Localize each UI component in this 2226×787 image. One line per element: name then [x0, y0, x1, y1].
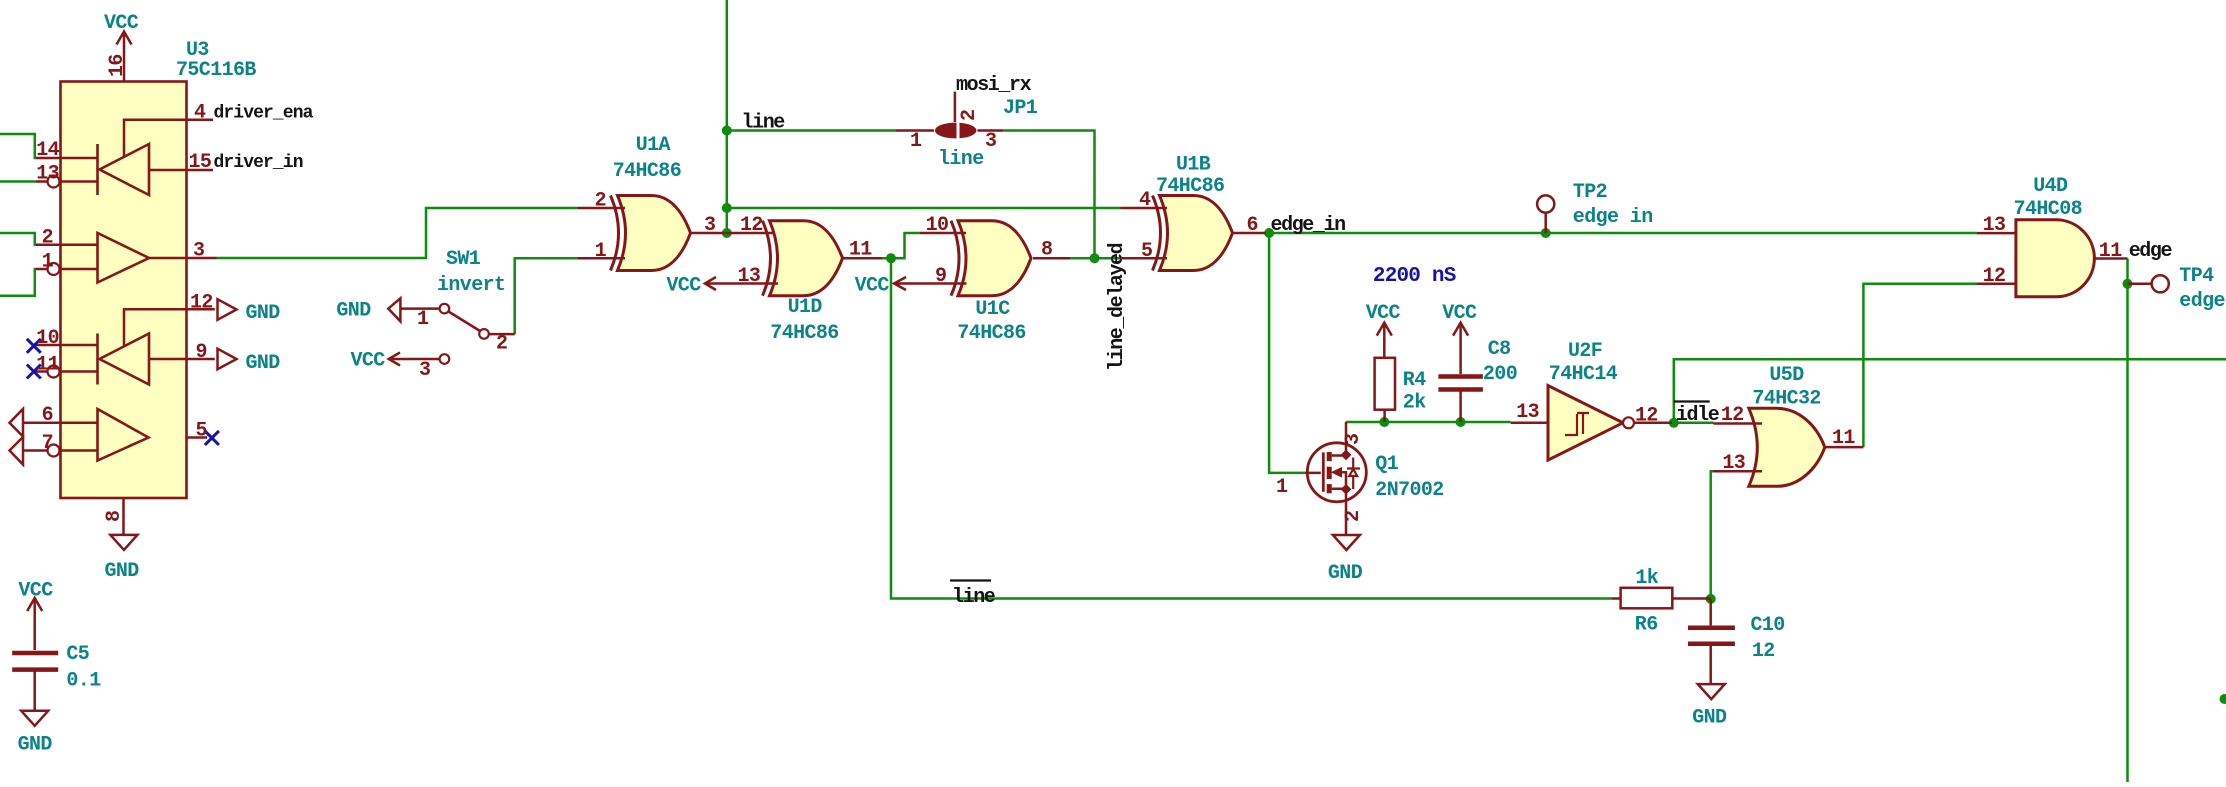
svg-text:74HC86: 74HC86	[613, 160, 681, 183]
svg-text:JP1: JP1	[1003, 97, 1038, 120]
svg-text:13: 13	[1722, 452, 1745, 475]
svg-text:1: 1	[42, 251, 54, 274]
power VCC at R4	[1377, 323, 1392, 358]
pin 2	[36, 243, 98, 246]
wire to U3 pin 13	[0, 180, 36, 183]
pin 3 output	[149, 257, 217, 260]
svg-text:8: 8	[103, 511, 126, 522]
wire R6/C10 node to U5D pin13	[1711, 471, 1714, 599]
svg-text:VCC: VCC	[1366, 302, 1401, 325]
svg-text:3: 3	[419, 359, 430, 382]
svg-text:idle: idle	[1676, 404, 1720, 427]
JP1 pin 2 stub	[954, 92, 957, 122]
svg-text:12: 12	[1752, 640, 1775, 663]
svg-text:13: 13	[1516, 401, 1539, 424]
U4D pin 12	[1977, 283, 2016, 286]
power VCC at C8	[1453, 323, 1468, 374]
svg-text:11: 11	[2099, 240, 2122, 263]
svg-text:2k: 2k	[1403, 392, 1426, 415]
svg-text:10: 10	[926, 214, 949, 237]
svg-text:9: 9	[196, 341, 207, 364]
wire inverted line to R6	[891, 258, 1611, 598]
svg-text:mosi_rx: mosi_rx	[956, 74, 1032, 97]
and-gate U4D	[2016, 220, 2094, 297]
wire edge_in down to Q1 gate	[1269, 233, 1305, 473]
svg-text:U4D: U4D	[2033, 175, 2068, 198]
svg-text:TP4: TP4	[2179, 265, 2214, 288]
global label VCC at SW1 pin3	[389, 353, 400, 366]
svg-text:5: 5	[196, 420, 207, 443]
ground at U3 pin 8	[110, 535, 137, 550]
svg-text:1k: 1k	[1635, 567, 1658, 590]
wire JP1 pin3 down to line_delayed node	[1003, 131, 1095, 259]
svg-text:Q1: Q1	[1375, 453, 1398, 476]
svg-text:16: 16	[106, 54, 129, 77]
U4D pin 13	[1977, 232, 2016, 235]
svg-text:15: 15	[189, 151, 212, 174]
svg-text:VCC: VCC	[104, 12, 139, 35]
U2F pin 12 output	[1634, 422, 1672, 425]
junction edge_in	[1264, 228, 1274, 238]
junction R6/C10 node	[1706, 594, 1716, 604]
svg-text:SW1: SW1	[446, 248, 481, 271]
wire idle to right edge	[1674, 359, 2226, 423]
pin 15 driver_in	[149, 169, 213, 172]
svg-text:1: 1	[417, 308, 429, 331]
svg-text:74HC86: 74HC86	[1156, 175, 1224, 198]
svg-text:2: 2	[1342, 511, 1365, 522]
svg-text:3: 3	[193, 240, 204, 263]
svg-text:VCC: VCC	[666, 275, 701, 298]
junction R4 bottom	[1379, 417, 1389, 427]
svg-text:12: 12	[1635, 405, 1658, 428]
svg-text:2: 2	[42, 227, 53, 250]
svg-text:driver_in: driver_in	[214, 153, 303, 173]
svg-text:edge: edge	[2129, 240, 2173, 263]
U2F pin 13	[1511, 422, 1548, 425]
power VCC at U3 pin 16	[117, 32, 132, 82]
svg-text:74HC86: 74HC86	[957, 322, 1025, 345]
pin 7 with input arrow inverted	[23, 449, 48, 452]
svg-text:driver_ena: driver_ena	[214, 104, 314, 124]
wire line to U1B pin4	[727, 207, 1121, 210]
Q1 pin 2 source	[1345, 489, 1348, 534]
svg-text:74HC32: 74HC32	[1752, 388, 1820, 411]
wire Q1 drain node to U2F pin13	[1346, 421, 1511, 424]
svg-text:C10: C10	[1751, 614, 1785, 637]
svg-text:U1D: U1D	[788, 296, 823, 319]
global label GND at SW1 pin1	[388, 298, 400, 321]
capacitor C10	[1709, 599, 1712, 626]
svg-text:10: 10	[36, 327, 59, 350]
U5D pin 13	[1714, 470, 1763, 473]
capacitor C8	[1438, 374, 1483, 379]
capacitor C5	[12, 651, 58, 656]
svg-text:C8: C8	[1488, 338, 1511, 361]
IC U3 75C116B body	[61, 82, 187, 499]
svg-text:edge in: edge in	[1573, 206, 1653, 229]
switch SW1 lever	[449, 312, 481, 332]
wire U2F out to U5D pin12	[1674, 422, 1714, 425]
svg-text:line: line	[952, 586, 996, 609]
U2F output bubble	[1623, 417, 1634, 428]
svg-text:U2F: U2F	[1568, 340, 1602, 363]
svg-text:1: 1	[910, 130, 922, 153]
svg-text:GND: GND	[1692, 707, 1727, 730]
pin 1 inverted	[36, 268, 48, 271]
svg-text:74HC14: 74HC14	[1549, 363, 1618, 386]
svg-text:C5: C5	[66, 643, 89, 666]
svg-text:4: 4	[194, 102, 206, 125]
pin 11 no-connect inverted	[36, 370, 48, 373]
U4D pin 11 output	[2093, 257, 2128, 260]
svg-text:R6: R6	[1635, 614, 1658, 637]
pin 13 inverted	[36, 180, 48, 183]
svg-text:12: 12	[1721, 404, 1744, 427]
pin 5 no-connect	[187, 436, 208, 439]
resistor R6	[1611, 597, 1620, 600]
wire SW1 pin2 to U1A pin1	[515, 258, 578, 334]
global label GND at pin 9	[218, 349, 237, 370]
svg-text:4: 4	[1139, 189, 1151, 212]
xor-gate U1D	[770, 221, 843, 296]
switch SW1 pin 1	[400, 307, 440, 310]
wire to U3 pin 2	[0, 233, 36, 245]
svg-text:11: 11	[849, 239, 872, 262]
svg-text:12: 12	[190, 292, 213, 315]
junction line_delayed	[1090, 253, 1100, 263]
svg-text:line_delayed: line_delayed	[1106, 243, 1129, 371]
svg-text:12: 12	[740, 214, 763, 237]
svg-text:2: 2	[595, 190, 606, 213]
junction TP4	[2123, 279, 2133, 289]
svg-text:3: 3	[1342, 434, 1365, 445]
U1A pin 2	[578, 207, 625, 210]
U1C pin 9 VCC	[894, 277, 906, 290]
svg-text:GND: GND	[1328, 562, 1363, 585]
svg-text:GND: GND	[246, 302, 281, 325]
junction line/JP1	[722, 126, 732, 136]
U3 receiver C triangle	[100, 334, 150, 385]
svg-text:11: 11	[1832, 427, 1855, 450]
U5D pin 12	[1714, 422, 1763, 425]
pin 14	[36, 157, 98, 160]
svg-text:VCC: VCC	[1442, 302, 1477, 325]
U1C pin 10	[920, 232, 966, 235]
JP1 pin 3	[978, 129, 1004, 132]
svg-text:74HC08: 74HC08	[2014, 198, 2082, 221]
transistor Q1 2N7002	[1307, 443, 1366, 502]
svg-text:2: 2	[496, 333, 507, 356]
svg-text:12: 12	[1983, 265, 2006, 288]
U3 driver D triangle	[98, 409, 149, 461]
svg-text:75C116B: 75C116B	[176, 59, 256, 82]
svg-text:edge: edge	[2179, 290, 2225, 313]
wire U5D out to U4D pin12	[1863, 284, 1977, 447]
global label GND at pin 12	[218, 299, 237, 320]
svg-text:line: line	[742, 112, 786, 135]
svg-text:2200 nS: 2200 nS	[1373, 265, 1456, 288]
svg-text:13: 13	[1983, 214, 2006, 237]
inverter U2F 74HC14	[1548, 386, 1623, 461]
svg-text:8: 8	[1041, 239, 1052, 262]
svg-text:13: 13	[738, 265, 761, 288]
svg-text:U5D: U5D	[1769, 364, 1804, 387]
or-gate U5D	[1749, 408, 1825, 486]
switch SW1 contact B	[479, 329, 489, 339]
svg-text:invert: invert	[437, 274, 505, 297]
U5D pin 11 output	[1825, 446, 1864, 449]
svg-text:6: 6	[1247, 214, 1258, 237]
svg-text:3: 3	[704, 214, 715, 237]
ground at C10	[1698, 684, 1725, 699]
svg-text:U1A: U1A	[636, 134, 671, 157]
junction U1D output node	[886, 253, 896, 263]
svg-text:200: 200	[1483, 363, 1517, 386]
wire to U3 pin 1	[0, 269, 36, 296]
svg-text:0.1: 0.1	[66, 670, 101, 693]
svg-text:GND: GND	[336, 300, 371, 323]
wire to U3 pin 14	[0, 134, 36, 158]
svg-text:line: line	[938, 148, 984, 171]
resistor R4	[1375, 358, 1395, 410]
U3 driver B triangle	[98, 233, 150, 283]
xor-gate U1A	[618, 196, 691, 271]
junction line/U1A out	[722, 228, 732, 238]
svg-text:R4: R4	[1403, 369, 1426, 392]
testpoint TP2	[1544, 213, 1547, 234]
wire U1C out to U1B pin5	[1070, 257, 1121, 260]
wire edge_in U1B out to U4D pin13	[1266, 232, 1977, 235]
pin 6 with input arrow	[23, 422, 98, 425]
U1A pin 1	[578, 257, 625, 260]
svg-text:GND: GND	[246, 352, 281, 375]
svg-text:13: 13	[36, 163, 59, 186]
xor-gate U1C	[958, 221, 1031, 296]
svg-text:U1C: U1C	[975, 298, 1010, 321]
wire edge net down to bottom edge	[2126, 259, 2129, 783]
U1D pin 13 VCC	[705, 277, 716, 290]
U1D pin 11 output	[843, 257, 882, 260]
switch SW1 pin 2	[489, 333, 515, 336]
junction C8 bottom	[1456, 417, 1466, 427]
wire U1D out to U1C pin10	[880, 233, 920, 258]
pin 8	[122, 498, 125, 534]
jumper JP1 pads	[935, 123, 977, 139]
pin 10 no-connect	[36, 344, 98, 347]
U1B pin 6 output	[1233, 232, 1267, 235]
svg-text:GND: GND	[105, 560, 140, 583]
junction TP2	[1541, 228, 1551, 238]
xor-gate U1B	[1160, 196, 1233, 271]
Q1 pin 3 drain	[1345, 422, 1348, 455]
switch SW1 contact A	[440, 304, 450, 314]
svg-text:6: 6	[42, 404, 53, 427]
ground at Q1 source	[1333, 535, 1360, 550]
svg-text:3: 3	[985, 130, 996, 153]
testpoint TP4	[2128, 283, 2152, 286]
Q1 pin 1 gate	[1305, 472, 1321, 475]
U1B pin 5	[1121, 257, 1168, 260]
svg-text:2: 2	[958, 110, 981, 121]
U1B pin 4	[1121, 207, 1168, 210]
svg-text:1: 1	[595, 240, 607, 263]
svg-text:U1B: U1B	[1176, 154, 1211, 177]
wire net line vertical from top edge	[726, 0, 729, 233]
U3 receiver A triangle	[100, 144, 150, 195]
junction clipped at right edge	[2220, 694, 2226, 704]
svg-text:TP2: TP2	[1573, 181, 1607, 204]
svg-text:5: 5	[1141, 240, 1152, 263]
JP1 pin 1	[896, 129, 934, 132]
svg-text:1: 1	[1276, 476, 1288, 499]
ground at C5	[21, 711, 48, 726]
junction line rowA	[722, 203, 732, 213]
svg-text:11: 11	[36, 354, 59, 377]
junction idle node	[1669, 418, 1679, 428]
pin 9	[149, 358, 215, 361]
svg-text:VCC: VCC	[855, 275, 890, 298]
pin 12	[124, 309, 215, 347]
switch SW1 contact C	[440, 354, 450, 364]
svg-text:GND: GND	[18, 734, 53, 757]
pin 4 driver_ena	[124, 120, 213, 157]
svg-text:7: 7	[42, 432, 53, 455]
wire line to JP1 pin1	[727, 129, 896, 132]
svg-text:9: 9	[935, 265, 946, 288]
U1C pin 8 output	[1033, 257, 1070, 260]
svg-text:14: 14	[36, 139, 59, 162]
wire U3 pin3 to U1A pin2	[217, 208, 579, 258]
U1A pin 3 output	[691, 232, 779, 235]
svg-text:2N7002: 2N7002	[1375, 479, 1443, 502]
svg-text:74HC86: 74HC86	[770, 322, 838, 345]
svg-text:edge_in: edge_in	[1271, 214, 1346, 237]
svg-text:VCC: VCC	[351, 349, 386, 372]
